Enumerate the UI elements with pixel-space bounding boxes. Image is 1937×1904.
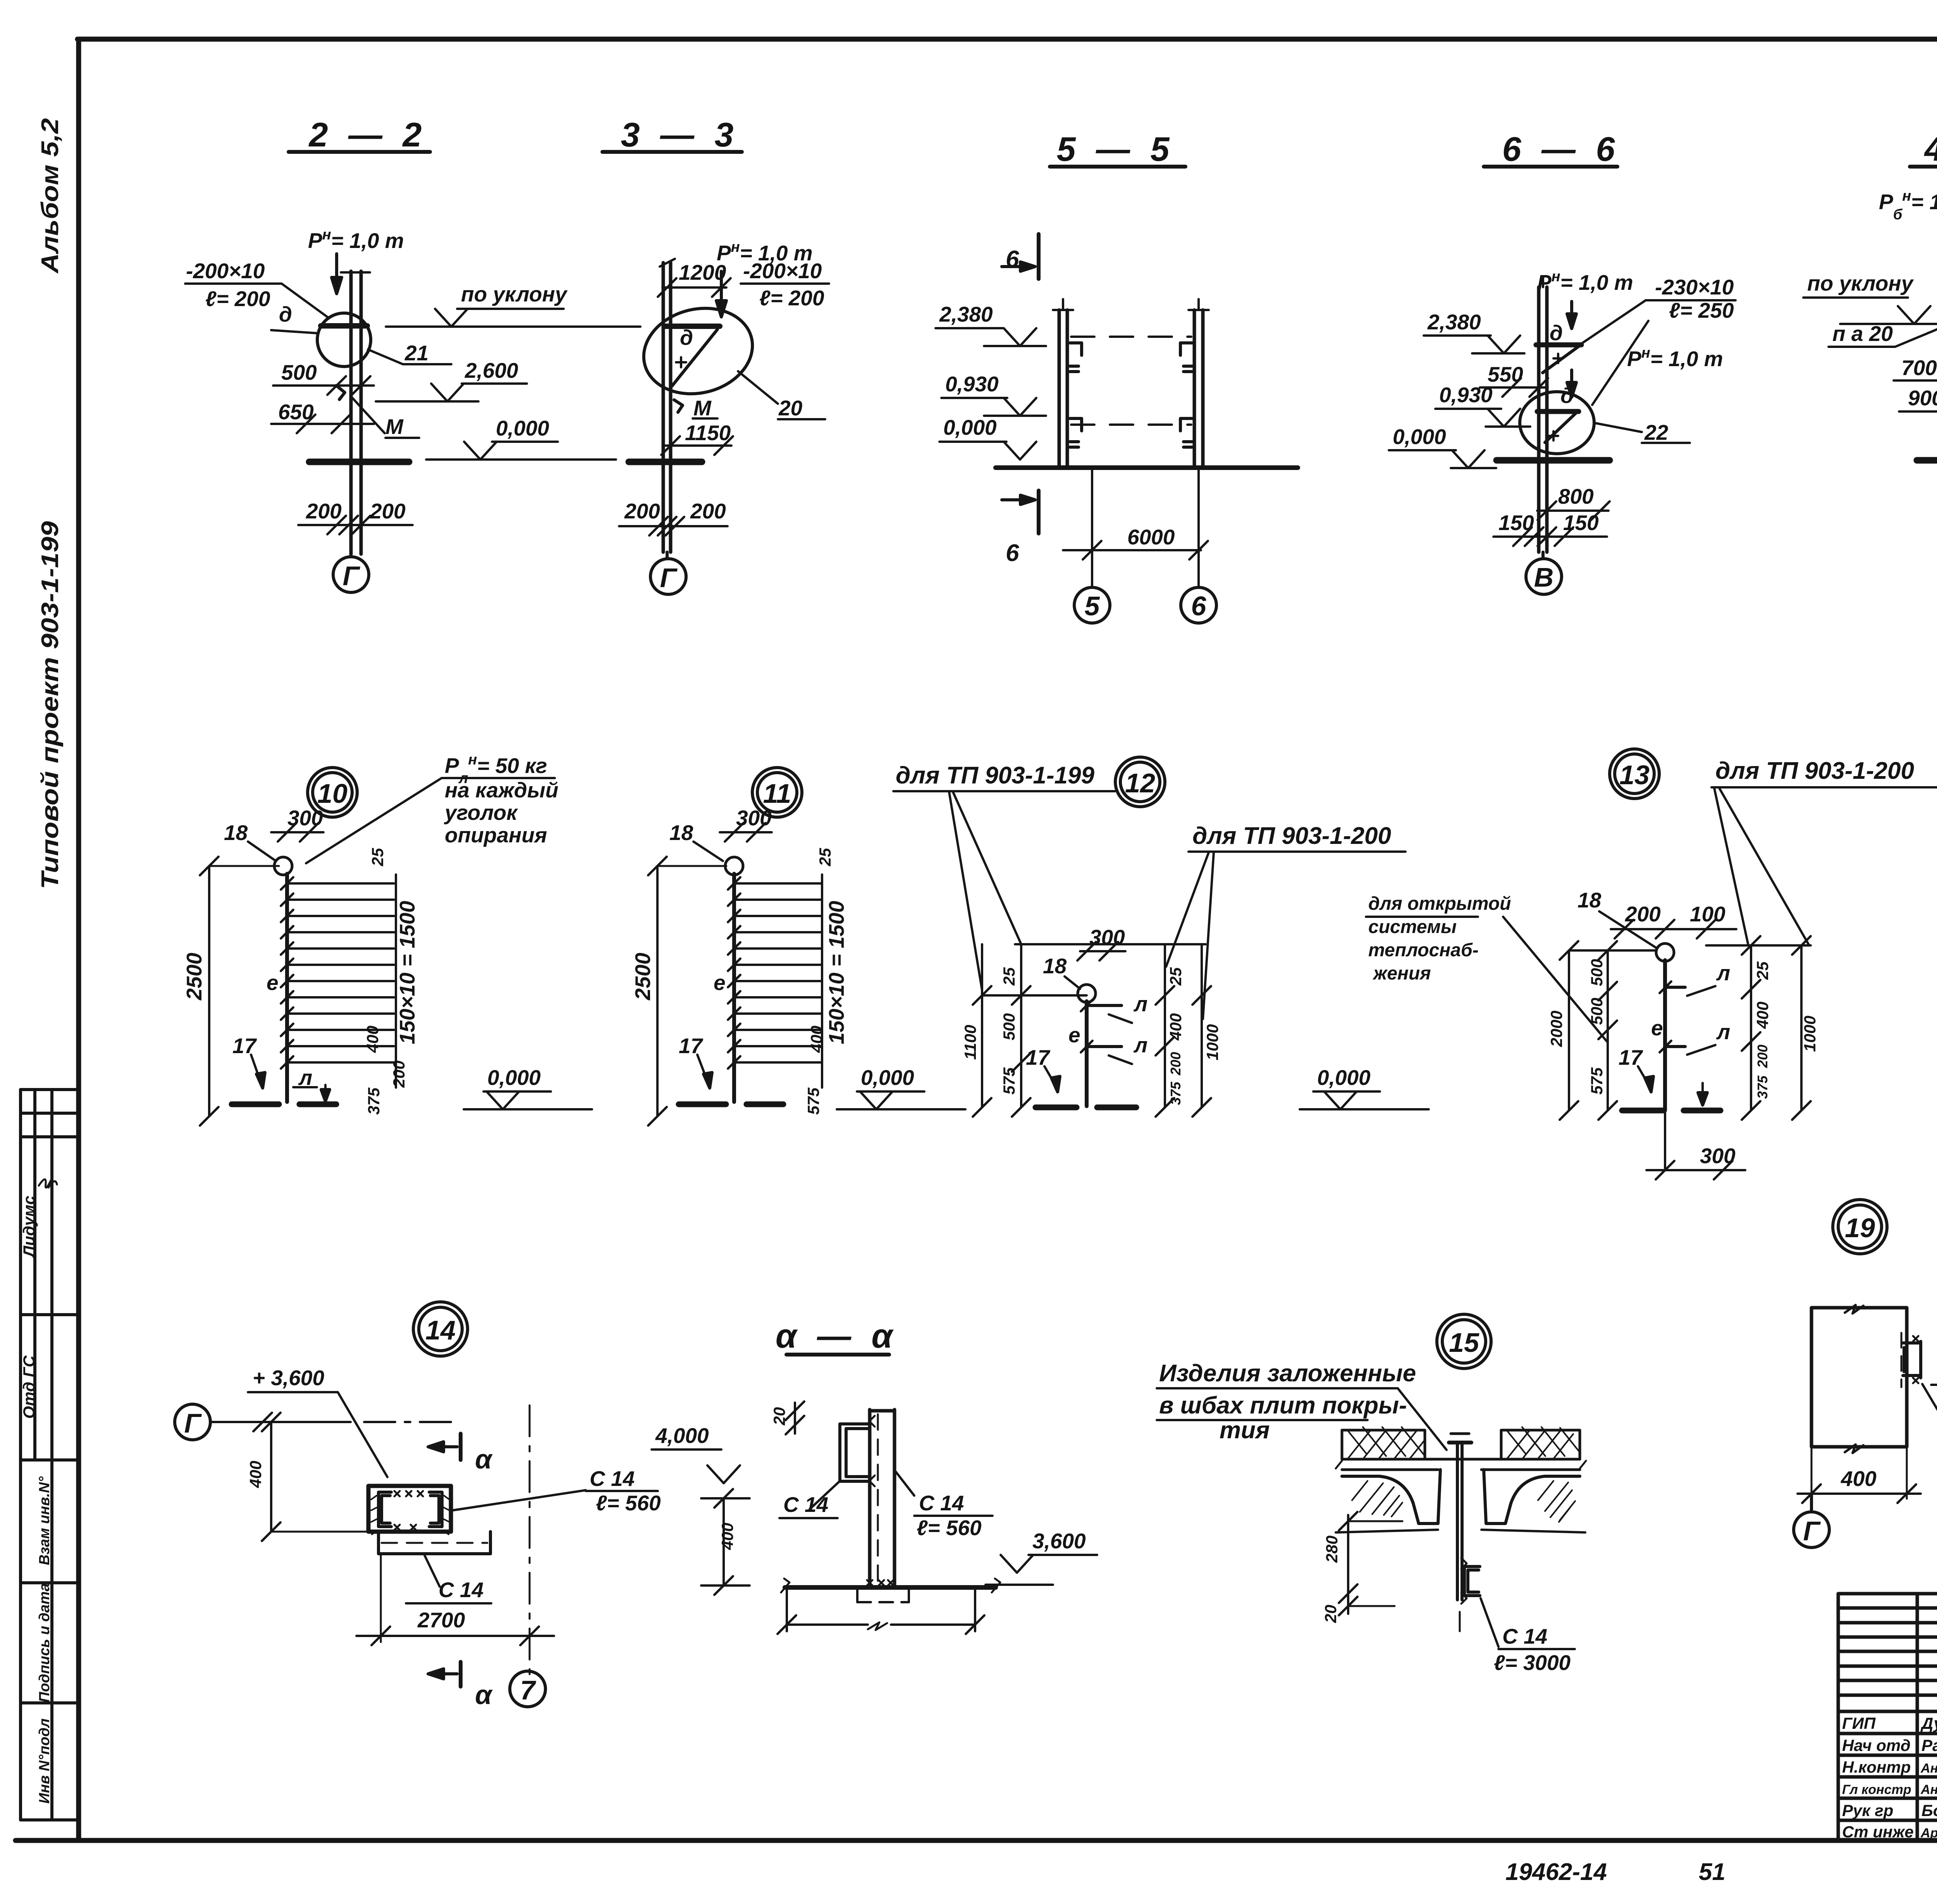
dim 1150: [661, 421, 733, 455]
column shaft: [660, 259, 675, 552]
elevation 3.600: [986, 1529, 1097, 1585]
label 17: [1619, 1045, 1653, 1092]
embedded plate dashed: [857, 1589, 909, 1602]
svg-text:α — α: α — α: [776, 1317, 898, 1355]
angle rungs: [281, 877, 394, 1069]
base plates: [232, 1102, 336, 1107]
svg-text:Альбом 5,2: Альбом 5,2: [37, 118, 64, 274]
svg-text:575: 575: [1000, 1067, 1018, 1095]
svg-text:18: 18: [1043, 954, 1067, 978]
section 5-5 title: [1050, 130, 1185, 168]
node circle 18: [725, 857, 743, 875]
svg-text:4,000: 4,000: [655, 1424, 709, 1448]
dim frame lines: [1560, 936, 1811, 1120]
section mark a bottom: [428, 1662, 493, 1710]
svg-text:ℓ= 560: ℓ= 560: [596, 1491, 661, 1515]
dim 300: [1077, 925, 1125, 961]
channel left inside: [371, 1492, 391, 1534]
arrow at right base: [1698, 1083, 1707, 1105]
plate label -200x10 l=200: [185, 259, 327, 317]
svg-text:-200×10: -200×10: [186, 259, 265, 283]
svg-text:для открытой: для открытой: [1368, 893, 1511, 914]
rotated dims left: [1547, 959, 1606, 1095]
section 6-6 title: [1484, 130, 1620, 168]
svg-text:500: 500: [281, 360, 317, 384]
embed plate 14: [368, 1486, 451, 1532]
svg-text:4 — 4: 4 — 4: [1924, 130, 1937, 168]
svg-text:0,000: 0,000: [1317, 1066, 1371, 1090]
svg-text:Г: Г: [1803, 1516, 1821, 1546]
elevation 2.600: [376, 358, 527, 401]
svg-text:опирания: опирания: [445, 823, 547, 847]
left column: [1053, 299, 1073, 467]
base plates: [1622, 1108, 1720, 1114]
svg-text:С 14: С 14: [439, 1578, 483, 1602]
svg-text:18: 18: [224, 821, 248, 845]
svg-text:575: 575: [804, 1087, 822, 1115]
stamp signature squiggle: [39, 1179, 57, 1188]
svg-text:Думан: Думан: [1920, 1714, 1937, 1732]
detail bubble d: [317, 313, 371, 367]
svg-text:18: 18: [1577, 888, 1602, 912]
svg-text:17: 17: [232, 1034, 257, 1058]
svg-text:25: 25: [1000, 967, 1018, 986]
svg-text:0,930: 0,930: [1439, 383, 1493, 407]
svg-text:д: д: [680, 325, 693, 349]
dim 400: [1798, 1447, 1921, 1503]
po uklonu note: [1803, 271, 1937, 324]
elevation 0.930: [941, 372, 1046, 416]
bracket marks upper: [1070, 343, 1192, 372]
label 18: [224, 821, 276, 861]
section 3-3 title: [602, 115, 742, 154]
svg-text:для ТП 903-1-200: для ТП 903-1-200: [1715, 757, 1914, 784]
svg-text:17: 17: [679, 1034, 704, 1058]
detail 19 wall panel: [1811, 1305, 1907, 1453]
svg-text:500: 500: [1588, 959, 1606, 986]
label 17: [1026, 1045, 1060, 1092]
svg-text:e: e: [1651, 1016, 1663, 1040]
svg-text:21: 21: [404, 341, 428, 365]
ground line: [996, 465, 1298, 470]
weld x marks plate: [394, 1491, 423, 1530]
label 22: [1595, 420, 1690, 444]
label C14 l=3000: [1460, 1598, 1575, 1675]
column shaft: [1539, 277, 1547, 552]
bottom channel bracket: [1461, 1558, 1480, 1604]
po uklonu note: [386, 282, 640, 327]
dim 20: [1321, 1594, 1395, 1623]
svg-text:200: 200: [690, 499, 726, 523]
dim 400 vertical: [246, 1413, 368, 1541]
elevation 2.380: [936, 302, 1046, 346]
dim 6000: [1063, 468, 1208, 587]
svg-text:Г: Г: [660, 563, 678, 593]
svg-text:0,000: 0,000: [861, 1066, 914, 1090]
rotated dims left: [961, 967, 1018, 1095]
svg-text:6: 6: [1191, 591, 1207, 621]
ground line: [629, 459, 702, 465]
svg-text:5 — 5: 5 — 5: [1057, 130, 1175, 168]
axis circle 6: [1181, 587, 1216, 623]
elevation 0.000: [464, 1066, 592, 1109]
svg-text:2500: 2500: [182, 952, 206, 1000]
svg-text:13: 13: [1619, 760, 1650, 790]
svg-text:2700: 2700: [417, 1608, 465, 1632]
axis circle G: [333, 554, 369, 592]
elevation 0.000: [426, 416, 616, 460]
svg-text:теплоснаб-: теплоснаб-: [1368, 940, 1479, 961]
signature table: [1838, 1594, 1937, 1840]
svg-text:200: 200: [370, 499, 406, 523]
svg-text:1100: 1100: [961, 1025, 979, 1060]
elevation 0.000: [939, 415, 1036, 460]
svg-text:Изделия заложенные: Изделия заложенные: [1159, 1360, 1416, 1387]
svg-text:α: α: [475, 1444, 493, 1474]
load arrow lower: [1567, 370, 1576, 397]
column post a-a: [870, 1410, 895, 1586]
svg-text:e: e: [1068, 1023, 1080, 1047]
column post: [1663, 960, 1667, 1110]
label 20: [738, 371, 825, 420]
svg-text:α: α: [475, 1680, 493, 1710]
screed band: [1336, 1459, 1586, 1470]
svg-text:375: 375: [1755, 1075, 1770, 1099]
svg-text:19462-14: 19462-14: [1505, 1859, 1607, 1885]
label 17: [232, 1034, 265, 1088]
weld x marks base: [867, 1580, 893, 1586]
note P=50kg each angle: [306, 752, 558, 863]
elevation 2.600: [1931, 1341, 1937, 1385]
dim frame lines: [973, 944, 1211, 1117]
svg-text:Лидумс: Лидумс: [20, 1196, 38, 1258]
label 18: [669, 821, 723, 861]
svg-text:2,380: 2,380: [1427, 310, 1481, 334]
channel C14 on panel: [1901, 1333, 1921, 1387]
svg-text:Бобрук: Бобрук: [1922, 1801, 1937, 1820]
stem and dim 300: [1646, 1110, 1745, 1179]
elevation 0.000: [837, 1066, 965, 1109]
svg-text:0,000: 0,000: [496, 416, 549, 440]
section mark a top: [428, 1434, 493, 1474]
lower detail blob: [1520, 384, 1594, 454]
svg-text:Андриевская: Андриевская: [1920, 1761, 1937, 1776]
svg-text:500: 500: [1000, 1013, 1018, 1040]
svg-text:6 — 6: 6 — 6: [1502, 130, 1620, 168]
dim 500: [273, 360, 374, 395]
svg-text:л: л: [1716, 1020, 1730, 1044]
section 4-4 title: [1910, 130, 1937, 168]
svg-text:900: 900: [1908, 386, 1937, 410]
note dlya TP 903-1-200: [1712, 757, 1937, 945]
svg-text:400: 400: [807, 1026, 826, 1053]
svg-text:Андриевская: Андриевская: [1920, 1782, 1937, 1797]
svg-text:0,000: 0,000: [487, 1066, 541, 1090]
label 21: [368, 341, 451, 365]
svg-text:280: 280: [1323, 1536, 1341, 1563]
svg-text:-200×10: -200×10: [743, 259, 822, 283]
svg-text:уголок: уголок: [444, 801, 518, 825]
svg-text:по уклону: по уклону: [461, 282, 568, 306]
labels l: [1687, 961, 1730, 1055]
left dim 2500: [182, 857, 279, 1126]
svg-text:300: 300: [1089, 925, 1125, 949]
svg-text:11: 11: [763, 778, 791, 809]
svg-text:150×10 = 1500: 150×10 = 1500: [824, 901, 848, 1045]
svg-text:400: 400: [1753, 1002, 1772, 1029]
dim 150 150: [1493, 511, 1607, 546]
ground line: [1497, 457, 1610, 464]
dim 300: [271, 806, 323, 842]
section mark 6 bottom: [1002, 491, 1039, 566]
load arrow: [716, 271, 726, 317]
channel bracket left: [840, 1416, 875, 1486]
svg-text:Типовой проект 903-1-199: Типовой проект 903-1-199: [37, 521, 64, 889]
svg-text:2500: 2500: [631, 952, 655, 1000]
right column: [1189, 299, 1209, 467]
axis circle G: [1794, 1494, 1829, 1548]
dim 200 200: [619, 499, 728, 535]
svg-text:М: М: [693, 396, 712, 420]
detail bubble 19: [1833, 1200, 1887, 1254]
svg-text:Рабуха: Рабуха: [1922, 1736, 1937, 1754]
svg-text:-230×10: -230×10: [1655, 275, 1734, 299]
roof insulation hatched left: [1342, 1427, 1425, 1459]
dim 900: [1899, 386, 1937, 421]
dim 550: [1480, 362, 1548, 397]
axis circle G: [175, 1404, 210, 1440]
svg-text:ℓ= 560: ℓ= 560: [917, 1516, 982, 1540]
svg-text:0,000: 0,000: [1393, 425, 1446, 449]
svg-text:150×10 = 1500: 150×10 = 1500: [395, 901, 419, 1045]
node circle 18: [1078, 985, 1096, 1002]
elevation 0.000: [1300, 1066, 1429, 1109]
dim 400 vertical: [701, 1489, 750, 1595]
detail bubble 13: [1610, 749, 1659, 799]
svg-text:Отд ГС: Отд ГС: [20, 1355, 38, 1419]
note dlya TP 903-1-200: [1166, 823, 1405, 1019]
note izdeliya zalozhennye: [1157, 1360, 1447, 1450]
svg-text:25: 25: [1166, 967, 1185, 986]
svg-text:ℓ= 3000: ℓ= 3000: [1494, 1651, 1571, 1675]
detail bubble 11: [752, 768, 802, 817]
svg-text:700: 700: [1901, 356, 1937, 380]
node circle 18: [1656, 943, 1674, 961]
detail bubble 14: [413, 1302, 468, 1356]
detail bubble 10: [308, 768, 357, 817]
svg-text:Подпись и дата: Подпись и дата: [36, 1583, 53, 1703]
svg-text:200: 200: [306, 499, 342, 523]
svg-text:25: 25: [368, 848, 387, 866]
svg-text:200: 200: [1755, 1045, 1770, 1068]
svg-text:С 14: С 14: [919, 1491, 964, 1515]
svg-text:2,600: 2,600: [464, 358, 518, 382]
svg-text:Инв N°подл: Инв N°подл: [36, 1718, 53, 1804]
label d: [271, 302, 318, 333]
note dlya otkrytoy sistemy: [1366, 893, 1607, 1042]
svg-text:в шбах плит покры-: в шбах плит покры-: [1159, 1392, 1407, 1419]
label 18: [1043, 954, 1080, 989]
label M: [336, 386, 419, 439]
node circle 18: [274, 857, 292, 875]
svg-text:Гл констр: Гл констр: [1842, 1782, 1911, 1797]
roof insulation hatched right: [1501, 1427, 1580, 1459]
svg-text:10: 10: [317, 778, 347, 809]
bottom dim line: [778, 1587, 984, 1634]
svg-text:20: 20: [778, 396, 803, 420]
svg-text:6: 6: [1006, 540, 1019, 566]
svg-text:С 14: С 14: [1502, 1624, 1547, 1648]
svg-text:Г: Г: [184, 1408, 202, 1438]
svg-text:по уклону: по уклону: [1807, 271, 1914, 295]
svg-text:575: 575: [1588, 1067, 1606, 1095]
left dim 2500: [631, 857, 726, 1126]
detail bubble 12: [1115, 757, 1165, 807]
svg-text:на каждый: на каждый: [445, 778, 558, 802]
svg-text:системы: системы: [1368, 917, 1457, 937]
angle rungs: [1081, 1000, 1122, 1052]
ground line: [309, 459, 409, 465]
base plates: [679, 1102, 783, 1107]
column post: [1085, 1001, 1089, 1106]
dim 200 200: [298, 499, 413, 534]
svg-text:375: 375: [1168, 1081, 1184, 1105]
upper bracket d: [1536, 321, 1581, 373]
label C14 lower: [406, 1555, 491, 1603]
section mark 6 top: [1002, 234, 1039, 279]
elevation 0.000: [1389, 425, 1496, 468]
dim 200 100: [1611, 902, 1736, 938]
svg-text:400: 400: [718, 1523, 736, 1550]
axis line: [211, 1413, 457, 1431]
ground line: [1917, 457, 1937, 464]
svg-text:17: 17: [1619, 1045, 1643, 1069]
angle rungs: [1660, 981, 1685, 1052]
section a-a title: [776, 1317, 898, 1355]
label C14 l=560 right: [896, 1472, 993, 1540]
load arrow upper: [1567, 301, 1576, 329]
svg-text:20: 20: [1321, 1605, 1340, 1623]
axis circle G: [650, 552, 686, 594]
label 17: [679, 1034, 712, 1088]
svg-text:200: 200: [390, 1060, 408, 1088]
dim 20: [770, 1401, 804, 1434]
svg-text:400: 400: [1841, 1467, 1877, 1491]
svg-text:ℓ= 250: ℓ= 250: [1669, 298, 1734, 322]
svg-text:2 — 2: 2 — 2: [308, 115, 427, 154]
svg-text:12: 12: [1125, 768, 1155, 798]
elevation 0.930: [1435, 383, 1530, 427]
svg-text:2000: 2000: [1547, 1011, 1565, 1047]
svg-text:д: д: [1560, 384, 1574, 408]
axis circle 7: [510, 1671, 545, 1707]
svg-text:1000: 1000: [1203, 1024, 1221, 1060]
detail blob: [635, 297, 762, 405]
svg-text:+ 3,600: + 3,600: [253, 1366, 324, 1390]
svg-text:Нач отд: Нач отд: [1842, 1736, 1911, 1754]
svg-text:400: 400: [363, 1026, 382, 1053]
svg-text:Ст инже: Ст инже: [1842, 1823, 1914, 1841]
svg-text:для ТП 903-1-200: для ТП 903-1-200: [1192, 823, 1391, 849]
left stamp table: [21, 1090, 79, 1820]
svg-text:25: 25: [816, 848, 834, 866]
label C14 l=560: [452, 1467, 661, 1515]
note dlya TP 903-1-199: [893, 762, 1115, 990]
svg-text:л: л: [1716, 961, 1730, 985]
label C14 left: [779, 1482, 839, 1518]
svg-text:100: 100: [1690, 902, 1725, 926]
hanger plate: [1449, 1434, 1471, 1600]
svg-text:3 — 3: 3 — 3: [621, 115, 739, 154]
svg-text:22: 22: [1644, 420, 1669, 444]
dim 700: [1894, 356, 1937, 390]
elevation 4.000: [652, 1424, 740, 1483]
svg-text:Артамонова: Артамонова: [1920, 1826, 1937, 1840]
svg-text:С 14: С 14: [783, 1493, 828, 1517]
svg-text:7: 7: [520, 1675, 537, 1705]
svg-text:800: 800: [1558, 484, 1594, 508]
axis circle 5: [1074, 587, 1110, 623]
elevation +3.600: [248, 1366, 387, 1477]
svg-text:200: 200: [624, 499, 660, 523]
section 2-2 title: [289, 115, 430, 154]
svg-text:15: 15: [1449, 1327, 1479, 1358]
column post: [732, 874, 736, 1102]
svg-text:Г: Г: [343, 561, 361, 591]
svg-text:18: 18: [669, 821, 693, 845]
svg-text:В: В: [1534, 562, 1554, 592]
svg-text:375: 375: [365, 1087, 383, 1115]
plate label -200x10 l=200: [741, 259, 829, 310]
svg-text:Взам инв.N°: Взам инв.N°: [36, 1476, 53, 1565]
right extension line: [821, 875, 823, 1088]
label C14: [1922, 1384, 1937, 1434]
svg-text:л: л: [298, 1066, 312, 1090]
svg-text:400: 400: [246, 1461, 265, 1488]
svg-text:19: 19: [1845, 1213, 1875, 1243]
svg-text:e: e: [714, 971, 726, 995]
angle rungs: [728, 877, 821, 1069]
dim 650: [271, 400, 374, 433]
load arrow: [332, 254, 342, 294]
svg-text:51: 51: [1699, 1859, 1725, 1885]
svg-text:200: 200: [1168, 1052, 1184, 1076]
svg-text:1150: 1150: [685, 421, 731, 445]
svg-text:Н.контр: Н.контр: [1842, 1758, 1911, 1776]
slab rib left: [1336, 1470, 1440, 1532]
dashed tie lines: [1071, 337, 1191, 425]
elevation 2.380: [1424, 310, 1524, 353]
signature rows text: [1842, 1714, 1937, 1841]
svg-text:400: 400: [1166, 1013, 1185, 1041]
lower plate: [378, 1532, 490, 1554]
channel right inside: [429, 1492, 449, 1534]
svg-text:л: л: [1133, 992, 1147, 1016]
svg-text:6000: 6000: [1127, 525, 1175, 549]
base plates: [1036, 1105, 1136, 1110]
svg-text:5: 5: [1085, 591, 1100, 621]
svg-text:2,380: 2,380: [939, 302, 993, 326]
base line: [781, 1579, 1000, 1592]
svg-text:e: e: [267, 971, 279, 995]
label l with arrow: [293, 1066, 330, 1101]
svg-text:д: д: [279, 302, 292, 326]
svg-text:жения: жения: [1372, 963, 1431, 984]
dim 280: [1323, 1512, 1402, 1603]
dim 300: [720, 806, 772, 842]
plate label -230x10 l=250: [1583, 275, 1736, 405]
svg-text:0,930: 0,930: [945, 372, 999, 396]
